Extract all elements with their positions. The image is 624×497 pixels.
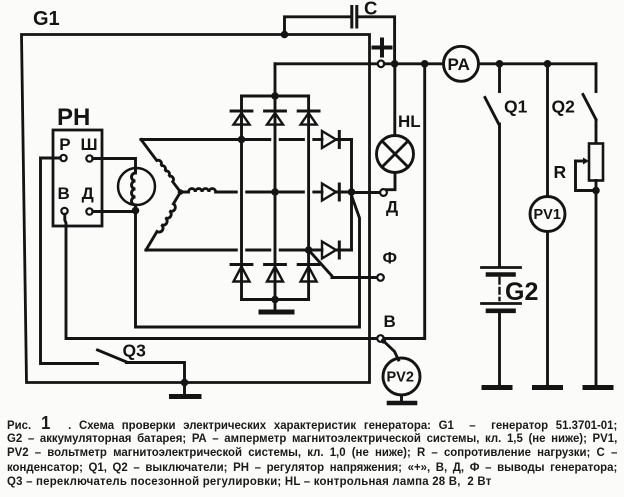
caption line 5 — [7, 474, 617, 489]
wire Sh to rotor — [93, 159, 136, 171]
label F — [383, 249, 398, 268]
svg-text:G2: G2 — [505, 278, 538, 306]
rectifier column 1 — [240, 96, 243, 300]
wire PA to right — [479, 62, 597, 65]
switch Q2 — [583, 64, 596, 144]
ground under Q3 — [172, 383, 200, 397]
svg-text:PV1: PV1 — [534, 207, 561, 223]
rectifier top bus — [242, 95, 309, 98]
terminal D — [380, 189, 387, 196]
wire top bus to plus — [274, 64, 277, 96]
resistor R — [589, 144, 603, 181]
svg-text:Д: Д — [82, 184, 94, 203]
label Q1 — [504, 97, 528, 117]
svg-text:В: В — [58, 184, 70, 203]
diode VD1 upper column 1 — [231, 111, 252, 125]
voltage regulator PH box — [53, 130, 102, 226]
ground bar under R — [585, 385, 611, 390]
junction V to PV2 — [381, 338, 386, 343]
svg-text:РН: РН — [57, 104, 90, 131]
svg-text:Q3: Q3 — [123, 341, 147, 361]
svg-text:Ф: Ф — [383, 249, 398, 268]
wire regulator V to terminal V — [65, 214, 378, 338]
lamp HL — [377, 67, 414, 190]
label D — [386, 198, 398, 217]
label C — [364, 0, 377, 19]
junction phase 2 column 2 — [271, 188, 279, 196]
svg-text:Р: Р — [59, 135, 70, 154]
diode VD5 lower column 2 — [265, 265, 286, 282]
generator G1 enclosure box — [22, 35, 370, 383]
junction B line plus — [421, 60, 429, 68]
wire rotor bottom to D net — [136, 196, 360, 328]
label V — [384, 312, 396, 331]
junction phase 3 column 3 — [305, 246, 313, 254]
svg-text:G1: G1 — [33, 8, 60, 30]
regulator terminal P — [60, 155, 66, 161]
ground bar under G2 — [484, 385, 510, 390]
junction capacitor lead plus — [391, 60, 399, 68]
field diode VD8 — [322, 184, 352, 201]
rectifier column 2 — [274, 96, 277, 300]
capacitor left lead — [285, 17, 351, 33]
svg-text:В: В — [384, 312, 396, 331]
field diode VD9 — [322, 242, 352, 259]
junction rotor bottom / regulator D — [132, 207, 140, 215]
switch Q3 — [98, 350, 185, 383]
label Q2 — [552, 97, 576, 117]
junction bottom bus center — [271, 296, 279, 304]
caption line 1 — [7, 416, 617, 433]
label G1 — [33, 8, 60, 30]
diode VD3 upper column 3 — [298, 111, 319, 125]
wire plus bus — [275, 62, 377, 65]
stator winding phase 1 — [141, 140, 181, 193]
svg-text:Q1: Q1 — [504, 97, 528, 117]
svg-text:HL: HL — [398, 112, 421, 131]
svg-text:PV2: PV2 — [387, 370, 414, 386]
junction Q3 ground on box bottom — [181, 379, 189, 387]
caption line 2 — [7, 431, 617, 446]
wire regulator D to rotor bottom — [93, 210, 132, 213]
capacitor right lead — [358, 17, 394, 64]
wire phase 3 to rectifier — [146, 249, 322, 252]
capacitor C plates — [352, 7, 357, 28]
diode VD4 lower column 1 — [231, 265, 252, 282]
wire phase 2 to rectifier — [216, 191, 322, 194]
caption line 4 — [7, 460, 617, 475]
svg-text:R: R — [554, 162, 567, 182]
terminal V — [377, 335, 384, 342]
field diode VD7 — [322, 131, 352, 148]
battery G2 — [482, 268, 521, 387]
wire R to ground — [595, 181, 598, 387]
label G2 — [505, 278, 538, 306]
regulator pin labels P Sh V D — [58, 135, 98, 203]
resistor wiper arrow — [576, 158, 597, 191]
junction top bus center — [271, 92, 279, 100]
regulator terminal V — [61, 208, 67, 214]
junction PV1 branch — [544, 60, 552, 68]
rectifier column 3 — [307, 96, 310, 300]
label R — [554, 162, 567, 182]
voltmeter PV1 — [530, 64, 565, 386]
ground under rectifier — [261, 300, 292, 313]
svg-text:Q2: Q2 — [552, 97, 576, 117]
wire D rail to terminal D — [352, 191, 381, 194]
stator winding phase 3 — [146, 192, 181, 250]
stator winding phase 2 — [181, 189, 216, 192]
wire P to Q3 — [41, 158, 98, 364]
caption line 3 — [7, 445, 617, 460]
svg-text:Д: Д — [386, 198, 398, 217]
regulator terminal Sh — [86, 155, 92, 161]
junction capacitor to case — [281, 31, 289, 39]
voltmeter PV2 — [383, 358, 420, 395]
junction field rail D — [348, 188, 356, 196]
field diode common rail — [350, 140, 353, 251]
rectifier bottom bus — [242, 298, 309, 301]
label PH — [57, 104, 90, 131]
wire terminal V to plus bus — [384, 64, 425, 339]
wire phase 3 to terminal F — [309, 250, 378, 278]
stator star point — [178, 189, 184, 195]
rotor field winding — [118, 168, 155, 208]
switch Q1 — [485, 64, 500, 267]
terminal plus — [378, 61, 385, 68]
label plus — [374, 40, 391, 56]
junction Q1 branch — [496, 60, 504, 68]
terminal F — [377, 274, 384, 281]
label Q3 — [123, 341, 147, 361]
svg-text:PA: PA — [448, 55, 470, 74]
wire phase 1 to rectifier — [141, 138, 322, 141]
ground bar under PV1 — [535, 385, 561, 390]
regulator terminal D — [86, 208, 92, 214]
label HL — [398, 112, 421, 131]
junction R bottom — [592, 187, 600, 195]
ammeter PA — [444, 46, 479, 81]
wire plus to PA — [384, 62, 443, 65]
diode VD2 upper column 2 — [265, 111, 286, 125]
svg-text:Ш: Ш — [81, 135, 98, 154]
diode VD6 lower column 3 — [298, 265, 319, 282]
wire V to PV2 — [384, 341, 399, 360]
ground under PV2 — [389, 395, 415, 403]
junction phase 1 column 1 — [238, 136, 246, 144]
